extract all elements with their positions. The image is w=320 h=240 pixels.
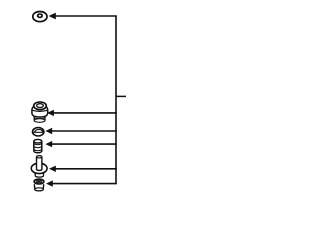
arrowhead to nut — [46, 180, 53, 186]
wire: branch 2 leader — [51, 130, 117, 132]
screw head (top view) — [33, 12, 47, 22]
wire: branch 3 leader — [51, 143, 117, 145]
wire: branch 1 leader — [53, 112, 117, 114]
stud bolt with round flange — [31, 156, 47, 177]
wire: branch 4 leader — [55, 168, 117, 170]
arrowhead to stacked bushing — [45, 141, 52, 147]
wire: top branch leader — [55, 15, 117, 17]
flanged nut — [34, 179, 44, 191]
stacked-ring bushing / spring — [34, 139, 42, 152]
ring / collar — [32, 128, 44, 136]
wire: branch 5 leader — [52, 183, 117, 185]
arrowhead to screw head — [49, 13, 56, 20]
arrowhead to ring — [45, 128, 52, 134]
wire: stub tick on trunk — [116, 95, 126, 97]
arrowhead to grommet — [47, 110, 54, 116]
grommet / bushing cap — [32, 102, 48, 122]
wire: vertical trunk leader line — [115, 16, 117, 184]
arrowhead to stud bolt — [49, 166, 56, 172]
